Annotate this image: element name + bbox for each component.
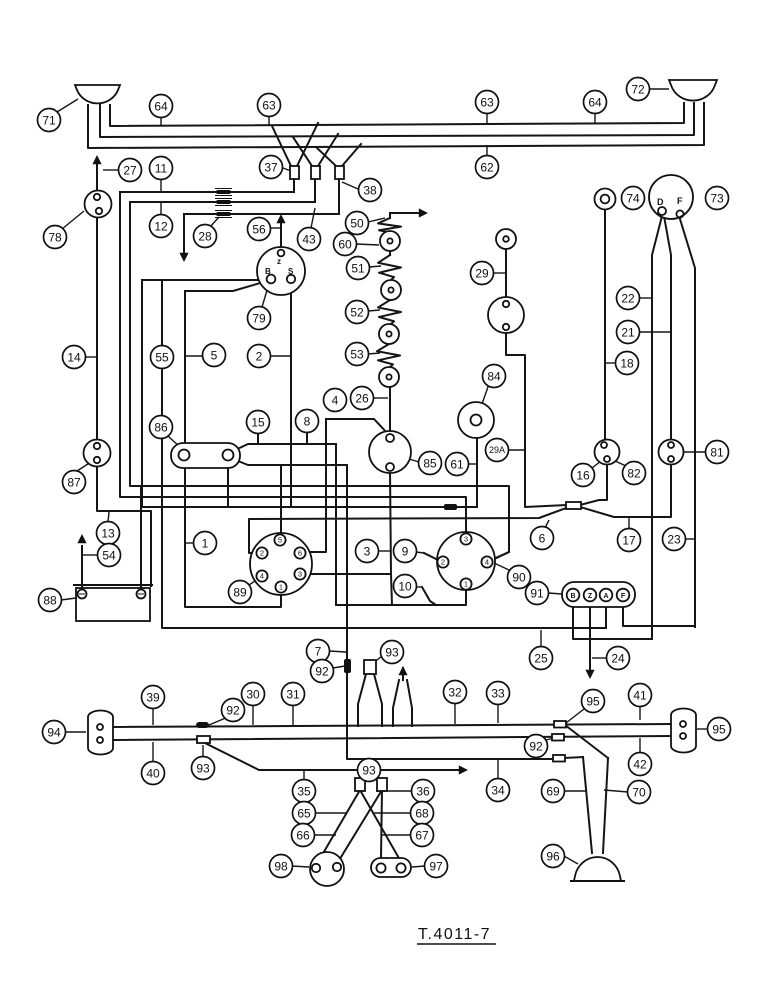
svg-text:95: 95 <box>586 694 600 708</box>
svg-text:26: 26 <box>355 391 369 405</box>
svg-text:z: z <box>277 257 281 266</box>
svg-text:94: 94 <box>47 725 61 739</box>
svg-text:3: 3 <box>364 544 371 558</box>
svg-text:50: 50 <box>350 216 364 230</box>
svg-text:41: 41 <box>633 688 647 702</box>
svg-text:84: 84 <box>487 369 501 383</box>
svg-text:82: 82 <box>627 466 641 480</box>
svg-text:35: 35 <box>297 784 311 798</box>
svg-text:38: 38 <box>363 183 377 197</box>
svg-text:87: 87 <box>67 475 81 489</box>
svg-text:62: 62 <box>480 160 494 174</box>
svg-text:68: 68 <box>415 806 429 820</box>
svg-text:1: 1 <box>464 580 468 589</box>
svg-text:18: 18 <box>620 356 634 370</box>
svg-text:66: 66 <box>296 828 310 842</box>
svg-text:93: 93 <box>362 763 376 777</box>
svg-text:10: 10 <box>398 579 412 593</box>
svg-text:1: 1 <box>279 583 283 592</box>
svg-text:2: 2 <box>260 549 264 558</box>
svg-text:98: 98 <box>274 859 288 873</box>
svg-text:74: 74 <box>626 191 640 205</box>
svg-text:T.4011-7: T.4011-7 <box>418 926 491 943</box>
svg-text:52: 52 <box>350 305 364 319</box>
svg-text:B: B <box>570 593 575 600</box>
svg-text:29: 29 <box>475 266 489 280</box>
svg-text:6: 6 <box>298 549 302 558</box>
svg-text:85: 85 <box>423 456 437 470</box>
svg-text:64: 64 <box>154 99 168 113</box>
svg-text:60: 60 <box>338 237 352 251</box>
svg-text:33: 33 <box>491 686 505 700</box>
svg-text:16: 16 <box>576 468 590 482</box>
svg-text:56: 56 <box>252 222 266 236</box>
svg-text:S: S <box>288 267 294 276</box>
svg-text:24: 24 <box>611 651 625 665</box>
svg-text:11: 11 <box>155 161 168 175</box>
svg-text:12: 12 <box>154 219 168 233</box>
svg-text:29A: 29A <box>489 445 505 455</box>
svg-text:A: A <box>603 593 608 600</box>
svg-text:93: 93 <box>196 761 210 775</box>
svg-text:34: 34 <box>491 783 505 797</box>
svg-text:3: 3 <box>298 570 302 579</box>
svg-text:23: 23 <box>667 532 681 546</box>
svg-text:70: 70 <box>632 785 646 799</box>
svg-text:78: 78 <box>48 230 62 244</box>
svg-text:31: 31 <box>286 687 300 701</box>
svg-text:22: 22 <box>621 291 635 305</box>
svg-text:32: 32 <box>448 685 462 699</box>
svg-text:55: 55 <box>155 350 169 364</box>
svg-text:91: 91 <box>530 586 544 600</box>
svg-text:5: 5 <box>278 536 282 545</box>
svg-text:40: 40 <box>146 766 160 780</box>
svg-text:65: 65 <box>297 806 311 820</box>
svg-text:30: 30 <box>246 687 260 701</box>
svg-text:17: 17 <box>622 533 636 547</box>
svg-text:F: F <box>677 196 683 206</box>
svg-text:3: 3 <box>464 535 468 544</box>
svg-text:D: D <box>657 197 664 207</box>
svg-text:37: 37 <box>264 160 278 174</box>
svg-text:5: 5 <box>211 348 218 362</box>
svg-text:61: 61 <box>450 457 464 471</box>
svg-text:15: 15 <box>251 415 265 429</box>
svg-text:21: 21 <box>621 325 635 339</box>
svg-text:14: 14 <box>67 350 81 364</box>
svg-text:28: 28 <box>198 229 212 243</box>
svg-text:1: 1 <box>202 536 209 550</box>
svg-text:54: 54 <box>102 548 116 562</box>
svg-text:Z: Z <box>588 593 593 600</box>
svg-text:95: 95 <box>712 722 726 736</box>
svg-text:4: 4 <box>485 558 489 567</box>
svg-text:42: 42 <box>633 757 647 771</box>
svg-text:90: 90 <box>512 570 526 584</box>
svg-text:63: 63 <box>262 98 276 112</box>
svg-text:B: B <box>265 267 271 276</box>
svg-text:27: 27 <box>123 163 137 177</box>
svg-text:86: 86 <box>154 420 168 434</box>
svg-text:2: 2 <box>441 558 445 567</box>
svg-text:51: 51 <box>351 261 365 275</box>
svg-text:97: 97 <box>429 859 443 873</box>
svg-text:13: 13 <box>101 526 115 540</box>
svg-text:67: 67 <box>415 828 429 842</box>
svg-text:92: 92 <box>315 664 329 678</box>
svg-text:72: 72 <box>631 82 645 96</box>
svg-text:81: 81 <box>710 445 724 459</box>
svg-text:93: 93 <box>385 645 399 659</box>
svg-text:4: 4 <box>332 393 339 407</box>
svg-text:8: 8 <box>304 414 311 428</box>
svg-text:4: 4 <box>260 572 264 581</box>
svg-text:63: 63 <box>480 95 494 109</box>
svg-text:36: 36 <box>416 784 430 798</box>
svg-text:6: 6 <box>539 531 546 545</box>
svg-text:64: 64 <box>588 95 602 109</box>
svg-text:39: 39 <box>146 690 160 704</box>
svg-text:2: 2 <box>256 349 263 363</box>
svg-text:69: 69 <box>546 784 560 798</box>
svg-text:96: 96 <box>546 849 560 863</box>
svg-text:79: 79 <box>252 311 266 325</box>
svg-text:F: F <box>621 593 626 600</box>
svg-text:7: 7 <box>315 644 322 658</box>
svg-text:73: 73 <box>710 191 724 205</box>
svg-text:53: 53 <box>350 347 364 361</box>
svg-text:92: 92 <box>529 739 543 753</box>
svg-text:43: 43 <box>302 232 316 246</box>
svg-text:88: 88 <box>43 593 57 607</box>
svg-text:9: 9 <box>402 544 409 558</box>
svg-text:25: 25 <box>534 651 548 665</box>
svg-text:89: 89 <box>233 585 247 599</box>
svg-text:71: 71 <box>42 113 56 127</box>
svg-text:92: 92 <box>226 703 240 717</box>
